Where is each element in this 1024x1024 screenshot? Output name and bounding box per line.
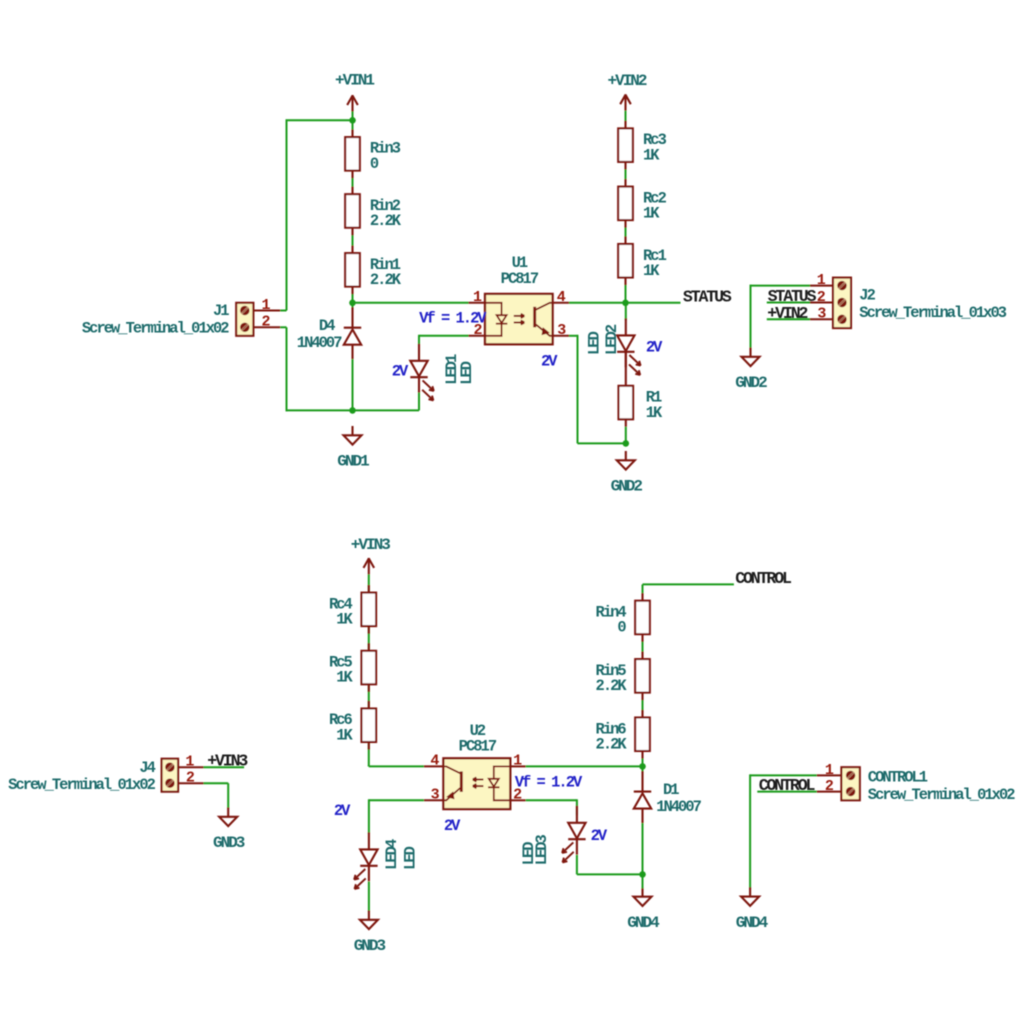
svg-text:LED: LED: [520, 842, 538, 866]
svg-text:Screw_Terminal_01x02: Screw_Terminal_01x02: [8, 776, 155, 794]
svg-text:+VIN1: +VIN1: [335, 72, 374, 90]
svg-text:+VIN3: +VIN3: [207, 752, 248, 771]
svg-text:2.2K: 2.2K: [370, 212, 402, 230]
svg-text:+VIN2: +VIN2: [607, 72, 646, 90]
svg-text:LED: LED: [458, 361, 476, 385]
svg-text:J2: J2: [859, 287, 875, 305]
svg-text:GND3: GND3: [213, 834, 245, 852]
svg-text:+VIN3: +VIN3: [351, 536, 390, 554]
svg-text:CONTROL: CONTROL: [735, 569, 792, 588]
svg-text:STATUS: STATUS: [683, 287, 732, 306]
svg-text:GND1: GND1: [337, 453, 369, 471]
svg-text:CONTROL1: CONTROL1: [868, 768, 928, 786]
svg-text:CONTROL: CONTROL: [759, 776, 816, 795]
svg-text:D1: D1: [663, 781, 679, 799]
svg-text:PC817: PC817: [459, 738, 497, 756]
svg-text:2.2K: 2.2K: [596, 736, 628, 754]
svg-text:Vf = 1.2V: Vf = 1.2V: [419, 309, 487, 327]
svg-text:Vf = 1.2V: Vf = 1.2V: [515, 773, 583, 791]
svg-text:J1: J1: [213, 302, 229, 320]
svg-text:1N4007: 1N4007: [656, 798, 701, 816]
svg-text:1N4007: 1N4007: [297, 334, 342, 352]
svg-text:+VIN2: +VIN2: [767, 304, 807, 323]
svg-text:LED2: LED2: [603, 324, 621, 355]
svg-text:PC817: PC817: [501, 270, 539, 288]
svg-text:LED4: LED4: [383, 839, 401, 870]
svg-text:2.2K: 2.2K: [596, 677, 628, 695]
svg-text:GND2: GND2: [735, 374, 767, 392]
svg-text:D4: D4: [319, 317, 335, 335]
svg-text:GND2: GND2: [611, 478, 643, 496]
svg-text:Screw_Terminal_01x03: Screw_Terminal_01x03: [859, 304, 1006, 322]
svg-text:GND4: GND4: [627, 914, 660, 932]
svg-text:Screw_Terminal_01x02: Screw_Terminal_01x02: [868, 786, 1015, 804]
svg-text:GND3: GND3: [354, 937, 386, 955]
svg-text:2.2K: 2.2K: [370, 271, 402, 289]
svg-text:GND4: GND4: [736, 914, 769, 932]
svg-text:Screw_Terminal_01x02: Screw_Terminal_01x02: [82, 319, 229, 337]
svg-text:LED: LED: [586, 331, 604, 355]
svg-text:LED: LED: [401, 846, 419, 870]
svg-text:J4: J4: [139, 759, 155, 777]
